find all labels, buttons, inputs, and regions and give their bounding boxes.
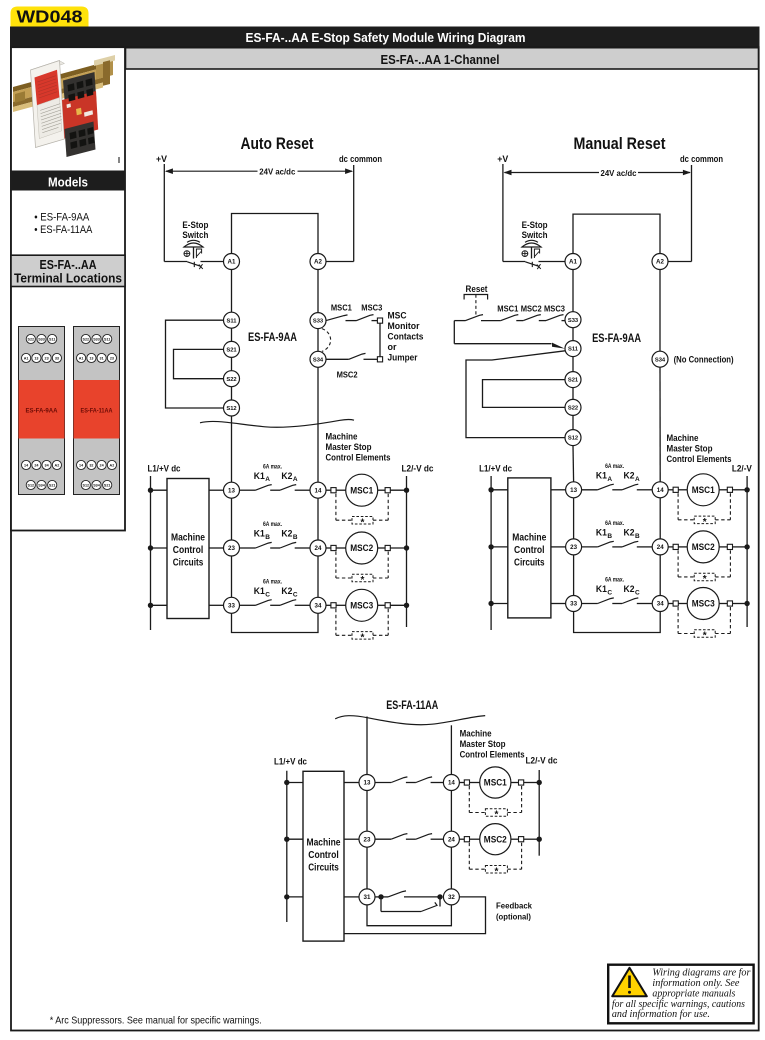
contacts K1B K2B (Manual) [582,546,598,548]
svg-text:ES-FA-11AA: ES-FA-11AA [386,698,438,712]
svg-text:S21: S21 [104,483,111,487]
svg-text:K2: K2 [281,529,292,539]
L1 supply rail (11AA) [286,771,288,922]
wire module bottom loop (Auto) [232,613,319,632]
Models header bar [11,171,125,191]
svg-text:14: 14 [448,780,455,787]
terminal S11 (Auto) [224,312,240,328]
svg-text:MSC: MSC [388,311,407,321]
load MSC1 (Manual) [668,489,673,491]
svg-text:S34: S34 [38,483,46,487]
svg-text:Circuits: Circuits [514,558,545,569]
wire box to terminal 23 (Manual) [551,546,566,548]
L2 return rail (Manual) [746,476,748,627]
wire box to terminal 31 (11AA) [344,896,359,898]
svg-text:31: 31 [100,356,104,360]
svg-text:MSC1: MSC1 [484,778,507,788]
junction dot L1 rail row 13 (Manual) [488,487,493,492]
svg-text:A1: A1 [569,259,577,266]
wire monitor loop vertical (Auto) [379,323,381,357]
MSC2 monitor contact (Auto) [326,358,349,360]
svg-text:Contacts: Contacts [388,332,424,342]
contacts K1C K2C (Manual) [582,603,598,605]
svg-text:and information for use.: and information for use. [612,1008,710,1020]
svg-text:*: * [361,575,365,586]
arc suppressor for MSC2 (11AA) [468,843,470,870]
svg-text:14: 14 [657,487,664,494]
terminal 24 (Auto) [310,540,326,556]
wire left column top (11AA) [366,717,368,775]
svg-text:C: C [635,590,640,597]
junction dot L1 rail row 23 (Manual) [488,544,493,549]
wire S21-S22 (Auto) [231,357,233,370]
wire A2 down to S33 (Auto) [317,270,319,313]
terminal S22 (Auto) [224,371,240,387]
svg-text:L2/-V dc: L2/-V dc [402,464,434,475]
svg-text:Switch: Switch [522,230,548,241]
svg-text:K1: K1 [254,471,265,481]
load MSC1 (11AA) [459,782,464,784]
wire S21-S22 (Manual) [572,388,574,400]
L2 return rail (11AA) [538,770,540,856]
svg-text:Monitor: Monitor [388,321,420,331]
svg-text:MSC2: MSC2 [692,542,715,552]
svg-text:24: 24 [315,545,322,552]
svg-text:B: B [607,533,612,540]
svg-text:dc common: dc common [680,154,723,165]
svg-text:S22: S22 [226,377,236,383]
wire 14-24 (Manual) [659,498,661,539]
svg-text:S21: S21 [226,348,237,354]
svg-text:24: 24 [657,544,664,551]
svg-text:S34: S34 [313,357,324,363]
product photo: terminal blocks and side face [62,72,119,163]
svg-text:*: * [494,810,498,821]
dashed jumper option S33-S34 (Auto) [322,329,331,352]
svg-text:6A max.: 6A max. [605,464,624,470]
terminal 24 (Manual) [652,539,668,555]
terminal 13 (Auto) [224,482,240,498]
svg-text:L2/-V dc: L2/-V dc [526,756,558,767]
svg-text:A2: A2 [55,463,60,467]
terminal location strip ES-FA-9AA [19,327,65,495]
terminal 31 (11AA) [359,889,375,905]
page title black bar [10,27,760,49]
arc suppressor for MSC2 (Auto) [335,552,337,579]
wire L1 to box row 23 (Manual) [491,546,508,548]
L2 return rail (Auto) [406,476,408,627]
junction dot L1 rail row 13 (11AA) [284,780,289,785]
svg-text:MSC1: MSC1 [331,303,352,313]
svg-text:Models: Models [48,174,88,189]
svg-text:S11: S11 [227,318,238,324]
svg-text:S22: S22 [28,337,35,341]
svg-text:23: 23 [228,545,235,552]
terminal location strip ES-FA-11AA [74,327,120,495]
wire S34 column down (Manual) [659,367,661,482]
terminal S22 (Manual) [565,399,581,415]
svg-text:K1: K1 [254,529,265,539]
jumper wire S21 to S22 (Manual) [483,380,566,408]
svg-text:33: 33 [570,601,577,608]
svg-text:Machine: Machine [667,433,699,444]
svg-text:L2/-V: L2/-V [732,464,753,475]
terminal 33 (Manual) [566,596,582,612]
svg-text:C: C [265,591,270,598]
Machine Control Circuits box (Manual) [508,478,551,618]
svg-text:*: * [494,866,498,877]
wire 13-23 (Auto) [231,498,233,540]
svg-text:L1/+V dc: L1/+V dc [148,464,181,475]
svg-text:6A max.: 6A max. [605,578,624,584]
svg-text:or: or [388,342,397,352]
svg-text:*: * [703,631,707,642]
load MSC2 (11AA) [459,838,464,840]
terminal S11 (Manual) [565,341,581,357]
svg-text:A: A [607,476,612,483]
MSC1 monitor contact (Manual) [501,315,519,321]
svg-text:32: 32 [89,463,93,467]
wire L1 to box row 13 (Auto) [151,489,168,491]
svg-text:• ES-FA-9AA: • ES-FA-9AA [34,212,90,224]
arc suppressor for MSC1 (11AA) [468,786,470,813]
svg-text:S33: S33 [93,337,100,341]
jumper wire S11 to S12 (Auto) [166,320,224,408]
svg-text:(optional): (optional) [496,912,531,922]
svg-text:MSC2: MSC2 [350,543,373,553]
wire S22-S12 (Auto) [231,387,233,400]
svg-text:S12: S12 [83,483,90,487]
svg-text:A: A [635,476,640,483]
contacts K1A K2A (Auto) [240,489,256,491]
wire S11-S21 (Manual) [572,357,574,372]
svg-text:L1/+V dc: L1/+V dc [274,757,307,768]
svg-text:*: * [703,574,707,585]
load MSC3 (Auto) [326,604,331,606]
load MSC3 (Manual) [668,603,673,605]
wire dc common vertical (Manual) [691,165,693,262]
terminal S33 (Manual) [565,312,581,328]
wire E-stop contact +V to A1 (Auto) [164,261,187,263]
svg-text:A1: A1 [79,356,84,360]
svg-text:MSC3: MSC3 [692,599,715,609]
svg-text:S12: S12 [226,406,236,412]
svg-text:A1: A1 [228,259,236,266]
svg-text:23: 23 [45,356,49,360]
jumper wire S21 to S22 (Auto) [174,349,224,378]
svg-text:Control: Control [514,545,545,556]
svg-text:MSC1: MSC1 [692,485,715,495]
24V ac/dc dimension line (Auto) [166,170,258,172]
L1 supply rail (Manual) [490,476,492,630]
wire S34 down through break (Auto) [317,367,319,482]
wire S11-S21 (Auto) [231,328,233,341]
terminal 13 (Manual) [566,482,582,498]
svg-text:S33: S33 [313,319,324,325]
svg-text:23: 23 [570,544,577,551]
svg-text:S22: S22 [83,337,90,341]
svg-text:Control: Control [173,545,204,556]
wire E-stop contact +V to A1 (Manual) [503,261,525,263]
warning triangle icon [612,968,647,997]
svg-text:24: 24 [448,836,455,843]
L1 supply rail (Auto) [150,476,152,630]
svg-text:6A max.: 6A max. [263,580,282,586]
junction dot L1 rail row 33 (Manual) [488,601,493,606]
svg-text:+V: +V [497,154,509,165]
svg-text:24V ac/dc: 24V ac/dc [259,167,295,177]
terminal 14 (Manual) [652,482,668,498]
svg-text:• ES-FA-11AA: • ES-FA-11AA [34,224,93,236]
svg-text:23: 23 [364,836,371,843]
terminal A2 (Manual) [652,254,668,270]
warning text [612,967,751,1021]
wire 13-23 (Manual) [573,498,575,539]
wire L1 to box row 13 (Manual) [491,489,508,491]
svg-text:S11: S11 [104,337,110,341]
contacts row 23 (11AA) [375,838,391,840]
wire L1 to box row 33 (Auto) [151,604,168,606]
left sidebar panel frame [11,47,125,530]
svg-text:Control: Control [308,850,339,861]
svg-text:S33: S33 [568,318,579,324]
svg-text:Control Elements: Control Elements [460,750,525,761]
svg-text:Manual Reset: Manual Reset [574,135,666,153]
svg-text:Master Stop: Master Stop [460,739,506,750]
wire A1 down to S11 (Auto) [231,270,233,313]
MSC2 monitor contact (Manual) [523,315,541,321]
wire L1 to box row 23 (11AA) [287,838,303,840]
wire A2 down to S34 (Manual) [659,270,661,352]
wire S12 down through break (Auto) [231,416,233,482]
svg-text:S33: S33 [38,337,45,341]
wire right column top (11AA) [450,725,452,774]
svg-text:Machine: Machine [512,533,546,544]
svg-text:13: 13 [570,487,577,494]
wire 23-33 (Manual) [573,555,575,596]
svg-text:S34: S34 [93,483,101,487]
svg-text:34: 34 [657,601,664,608]
junction dot before 32 (11AA) [437,894,442,899]
wire L1 to box row 33 (Manual) [491,603,508,605]
24V ac/dc dimension line (Manual) [505,172,600,174]
terminal S34 (Auto) [310,351,326,367]
wire S33-S34 (Auto) [317,329,319,352]
wire 24-34 (Auto) [317,556,319,597]
junction dot L1 rail row 23 (Auto) [148,545,153,550]
break wavy line (11AA) [335,716,485,725]
terminal 23 (Auto) [224,540,240,556]
svg-text:33: 33 [228,603,235,610]
arc suppressor for MSC1 (Auto) [335,494,337,521]
wire +V vertical (Manual) [502,164,504,262]
svg-text:WD048: WD048 [17,6,83,26]
svg-text:Master Stop: Master Stop [667,444,713,455]
terminal 34 (Auto) [310,597,326,613]
contacts row 13 (11AA) [375,782,391,784]
svg-text:K2: K2 [624,528,635,538]
wire A1 down to S33 (Manual) [572,270,574,312]
terminal S33 (Auto) [310,313,326,329]
feedback contact lower loop (11AA) [380,900,382,912]
warning box frame [608,965,753,1024]
wire box to terminal 23 (Auto) [209,547,224,549]
svg-text:B: B [635,533,640,540]
wire S22-S12 (Manual) [572,415,574,429]
load MSC2 (Auto) [326,547,331,549]
svg-text:Master Stop: Master Stop [326,442,372,453]
wire box to terminal 33 (Manual) [551,603,566,605]
svg-text:(No Connection): (No Connection) [674,355,734,365]
svg-text:K1: K1 [254,586,265,596]
wire 14-24 (Auto) [317,498,319,540]
wire dc common vertical (Auto) [353,165,355,262]
svg-text:S34: S34 [655,357,666,363]
svg-text:K1: K1 [596,584,607,594]
wire 14-24 (11AA) [450,791,452,832]
svg-text:MSC3: MSC3 [361,303,382,313]
svg-text:14: 14 [315,487,322,494]
monitor terminal node bottom (Auto) [377,357,382,362]
1-Channel grey subtitle bar [126,48,759,69]
wire S12 down (Manual) [572,446,575,482]
svg-text:MSC2: MSC2 [337,370,358,380]
svg-text:Feedback: Feedback [496,901,532,911]
svg-text:K2: K2 [281,471,292,481]
wire module bottom loop (11AA) [367,905,451,926]
break wavy line (Auto) [200,420,354,428]
svg-text:ES-FA-..AA 1-Channel: ES-FA-..AA 1-Channel [381,53,500,67]
load MSC2 (Manual) [668,546,673,548]
svg-text:ES-FA-..AA E-Stop Safety Modul: ES-FA-..AA E-Stop Safety Module Wiring D… [246,31,526,45]
WD048 yellow tab [11,7,89,28]
svg-text:ES-FA-11AA: ES-FA-11AA [81,408,113,415]
arc suppressor for MSC2 (Manual) [677,550,679,577]
svg-text:*: * [361,633,365,644]
Reset contact (Manual) [454,320,465,322]
terminal 32 (11AA) [443,889,459,905]
svg-text:A1: A1 [24,356,29,360]
svg-text:K2: K2 [281,586,292,596]
svg-text:A: A [293,476,298,483]
svg-text:A2: A2 [314,259,322,266]
wire box to terminal 13 (Auto) [209,489,224,491]
svg-text:B: B [293,534,298,541]
wire box to terminal 33 (Auto) [209,604,224,606]
junction dot L1 rail row 13 (Auto) [148,488,153,493]
svg-text:K2: K2 [624,584,635,594]
svg-text:* Arc Suppressors. See manual: * Arc Suppressors. See manual for specif… [50,1015,262,1026]
svg-text:dc common: dc common [339,154,382,165]
junction dot L1 rail row 23 (11AA) [284,837,289,842]
svg-text:13: 13 [89,356,93,360]
wire module top bridge A1-A2 (Manual) [573,214,660,253]
contacts K1B K2B (Auto) [240,547,256,549]
svg-text:13: 13 [364,780,371,787]
svg-text:MSC3: MSC3 [544,304,565,314]
feedback contact upper (11AA) [381,896,388,898]
terminal 14 (11AA) [443,775,459,791]
svg-text:S12: S12 [28,483,35,487]
wire A2 to dc common (Manual) [668,261,692,263]
svg-text:C: C [293,591,298,598]
svg-text:C: C [607,590,612,597]
wire 23-33 (Auto) [231,556,233,597]
wire 24-34 (Manual) [659,555,661,596]
svg-text:Jumper: Jumper [388,353,418,363]
svg-text:MSC1: MSC1 [497,304,518,314]
contacts K1C K2C (Auto) [240,604,256,606]
E-Stop switch symbol (Manual) [522,243,541,247]
monitor terminal node top (Auto) [377,318,382,323]
svg-text:*: * [361,517,365,528]
wire box to terminal 13 (Manual) [551,489,566,491]
svg-text:A: A [265,476,270,483]
svg-text:+V: +V [156,154,168,165]
svg-text:MSC2: MSC2 [484,834,507,844]
svg-text:6A max.: 6A max. [263,464,282,470]
svg-text:S21: S21 [568,378,579,384]
svg-text:Control Elements: Control Elements [667,454,732,465]
MSC3 monitor contact (Manual) [546,315,564,321]
svg-text:A2: A2 [110,463,115,467]
terminal 23 (11AA) [359,831,375,847]
svg-text:Reset: Reset [466,284,489,295]
svg-text:Machine: Machine [326,432,358,443]
svg-text:6A max.: 6A max. [263,522,282,528]
wire box to terminal 13 (11AA) [344,782,359,784]
svg-text:K1: K1 [596,528,607,538]
svg-text:13: 13 [228,487,235,494]
svg-text:33: 33 [55,356,59,360]
svg-text:31: 31 [364,894,371,901]
terminal 24 (11AA) [443,831,459,847]
svg-text:MSC2: MSC2 [521,304,542,314]
svg-text:MSC3: MSC3 [350,601,373,611]
contacts K1A K2A (Manual) [582,489,598,491]
svg-text:34: 34 [315,603,322,610]
svg-text:S11: S11 [49,337,55,341]
svg-text:B: B [265,534,270,541]
wire L1 to box row 31 (11AA) [287,896,303,898]
arc suppressor for MSC3 (Manual) [677,607,679,634]
MSC3 monitor contact (Auto) [357,315,374,321]
terminal S12 (Auto) [224,400,240,416]
terminal 33 (Auto) [224,597,240,613]
svg-text:Control Elements: Control Elements [326,453,391,464]
svg-text:Machine: Machine [460,729,492,740]
MSC1 monitor contact (Auto) [326,315,348,321]
wire L1 to box row 13 (11AA) [287,782,303,784]
wire 13-23 (11AA) [366,791,368,832]
svg-text:L1/+V dc: L1/+V dc [479,464,512,475]
Reset push-button symbol (Manual) [464,295,488,300]
terminal S12 (Manual) [565,430,581,446]
svg-text:S22: S22 [568,406,578,412]
wire module bottom loop (Manual) [574,612,661,633]
svg-text:6A max.: 6A max. [605,521,624,527]
wire L1 to box row 23 (Auto) [151,547,168,549]
terminal A2 (Auto) [310,254,326,270]
wire A2 to dc common (Auto) [326,261,354,263]
svg-text:S11: S11 [568,347,579,353]
svg-text:Machine: Machine [171,533,205,544]
wire module top bridge A1-A2 (Auto) [232,214,319,254]
Machine Control Circuits box (Auto) [167,479,209,619]
Machine Control Circuits box (11AA) [303,771,344,941]
jumper wire S11 to S12 (Manual) [466,351,565,438]
svg-text:ES-FA-9AA: ES-FA-9AA [248,330,297,344]
